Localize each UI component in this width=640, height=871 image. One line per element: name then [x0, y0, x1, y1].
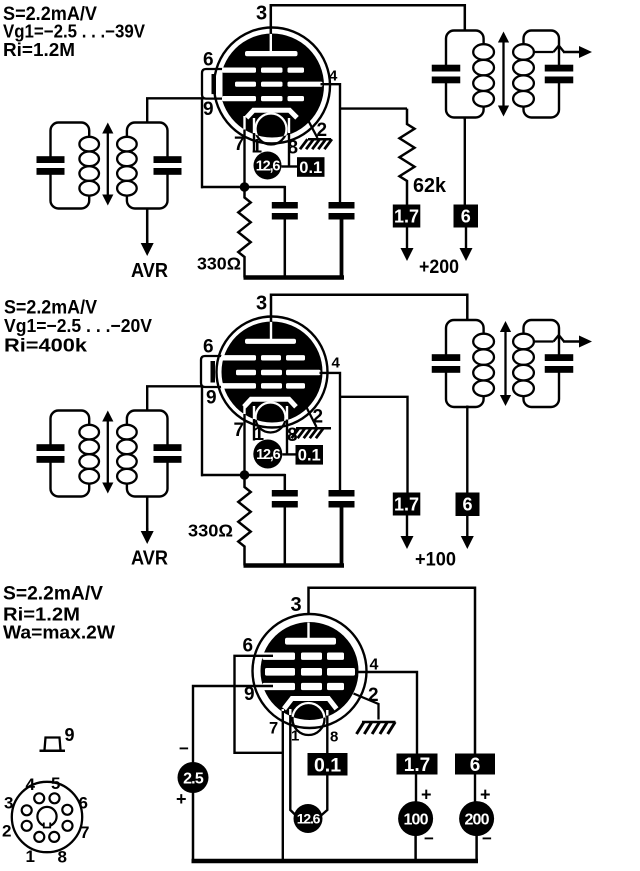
pin label 1 (V3)	[291, 728, 299, 745]
svg-text:6: 6	[462, 495, 472, 515]
svg-text:330Ω: 330Ω	[197, 254, 241, 274]
svg-text:9: 9	[65, 725, 75, 745]
heater voltage meter 12,6 V2	[253, 440, 282, 469]
circuit 1 parameter text S=2.2mA/V Vg1 Ri	[3, 4, 146, 60]
bottom bus circuit 1	[244, 275, 345, 280]
IF output transformer T4 secondary	[513, 320, 573, 407]
arrow from 6 meter (circuit 1)	[460, 228, 473, 262]
cathode bypass capacitor C1	[272, 186, 298, 278]
wire pin7 V1 cathode	[243, 116, 245, 188]
svg-text:12,6: 12,6	[256, 159, 281, 175]
heater current meter 0.1 V1	[282, 157, 325, 177]
svg-text:3: 3	[256, 3, 267, 25]
wire 2.5 meter to bus	[192, 793, 195, 862]
socket pin label 7	[80, 823, 89, 842]
pin label 2 (V1)	[317, 120, 328, 141]
coupling arrow T3	[102, 411, 113, 494]
svg-text:6: 6	[243, 636, 254, 657]
svg-text:1.7: 1.7	[404, 755, 430, 776]
IF output transformer T4 primary	[432, 320, 494, 407]
wire T1 secondary top to grid	[147, 98, 224, 122]
svg-text:6: 6	[203, 337, 214, 358]
pin label 6 (V2)	[203, 337, 214, 358]
label 62k (R2)	[413, 175, 447, 197]
top rail to output transformer T2	[271, 5, 465, 31]
socket center spigot	[37, 807, 56, 829]
svg-text:62k: 62k	[413, 175, 447, 197]
svg-text:AVR: AVR	[131, 260, 168, 282]
label minus (2.5 meter)	[179, 739, 189, 758]
socket pin label 3	[4, 794, 13, 813]
pin label 4 (V1)	[329, 68, 338, 85]
wire 1.7 meter to 100 meter	[397, 754, 438, 803]
socket pin label 4	[26, 775, 36, 794]
svg-text:9: 9	[203, 99, 214, 120]
svg-text:Vg1=−2.5 . . .−20V: Vg1=−2.5 . . .−20V	[4, 315, 153, 336]
screen bypass capacitor C4	[329, 490, 355, 566]
screen bypass capacitor C2	[329, 202, 355, 278]
label 330 ohm (R3)	[188, 521, 233, 541]
resistor R1 330 ohm	[238, 188, 250, 278]
top rail to output transformer T4	[271, 295, 467, 321]
wire pin3 V1 to top rail	[270, 4, 273, 34]
svg-text:3: 3	[4, 794, 13, 813]
svg-text:−: −	[482, 829, 492, 848]
svg-text:Wa=max.2W: Wa=max.2W	[3, 622, 116, 643]
label AVR (circuit 2)	[131, 548, 168, 570]
wire T3 secondary top to grid (circuit 2)	[147, 386, 224, 410]
svg-text:Ri=1.2M: Ri=1.2M	[3, 39, 75, 60]
wire pin1 V1 heater	[253, 118, 255, 153]
wire screen tap	[340, 107, 407, 109]
pin label 9 (V2)	[206, 388, 217, 409]
heater current meter 0.1 V2	[282, 445, 323, 465]
label +200	[419, 256, 459, 278]
IF output transformer T2 secondary	[513, 31, 573, 118]
svg-text:2: 2	[317, 120, 328, 141]
svg-text:2: 2	[2, 822, 11, 841]
screen current meter 1.7 (circuit 2)	[393, 493, 421, 516]
svg-text:+100: +100	[415, 549, 456, 571]
wire pin2 V2 to chassis	[303, 401, 317, 428]
socket pin hole 4	[34, 793, 44, 803]
pin label 4 (V2)	[332, 355, 341, 372]
socket pin hole 7	[63, 821, 73, 831]
top cap symbol (pin 9)	[40, 738, 66, 751]
pin label 8 (V2)	[287, 425, 298, 446]
svg-text:3: 3	[256, 293, 267, 315]
pin label 7 (V3)	[269, 720, 278, 738]
svg-text:7: 7	[234, 134, 245, 155]
top rail circuit 3	[309, 588, 476, 754]
svg-text:4: 4	[329, 68, 338, 85]
label plus (2.5 meter)	[176, 789, 187, 809]
bottom bus circuit 3	[192, 859, 479, 864]
AVR arrow (circuit 2)	[141, 528, 154, 544]
screen voltmeter 100	[398, 801, 433, 836]
wire pin7 V2 cathode	[243, 405, 245, 476]
IF input transformer T1 secondary coil and capacitor	[117, 123, 181, 209]
svg-text:1: 1	[291, 728, 299, 745]
arrow from 6 meter (circuit 2)	[461, 516, 474, 549]
svg-text:9: 9	[206, 388, 217, 409]
AVR arrow	[141, 240, 154, 256]
socket pin label 5	[51, 774, 60, 793]
chassis ground (V3 pin2)	[357, 722, 396, 734]
wire pin8 V2 heater	[286, 406, 288, 454]
pin label 9 (V1)	[203, 99, 214, 120]
svg-text:−: −	[179, 739, 189, 758]
pin label 1 (V1)	[252, 137, 263, 158]
heater current meter 0.1 V3	[308, 753, 348, 776]
wire screen tap (circuit 2)	[340, 397, 408, 493]
svg-text:+: +	[176, 789, 187, 809]
svg-text:1: 1	[26, 847, 35, 866]
pin label 7 (V1)	[234, 134, 245, 155]
wire T3 secondary bottom to AVR arrow (circuit 2)	[146, 497, 149, 532]
label minus (100 meter)	[424, 829, 434, 848]
socket pin hole 5	[50, 793, 60, 803]
chassis ground (V2 pin2)	[292, 428, 332, 438]
pin label 1 (V2)	[254, 424, 265, 445]
pin label 3 (V3)	[291, 594, 302, 616]
svg-text:0.1: 0.1	[298, 447, 321, 465]
resistor R2 62k	[400, 109, 415, 205]
tube V2 (pentode)	[201, 317, 328, 433]
svg-text:12.6: 12.6	[297, 811, 321, 827]
grid bias wire to 2.5 meter	[193, 686, 273, 763]
anode current meter 6 (circuit 3)	[455, 754, 495, 776]
coupling arrow T2	[498, 32, 509, 117]
label 330 ohm (R1)	[197, 254, 241, 274]
svg-text:0.1: 0.1	[314, 754, 341, 776]
svg-text:6: 6	[203, 50, 214, 71]
tube V1 (pentode)	[202, 28, 330, 145]
IF input transformer T3 primary coil and capacitor	[37, 411, 99, 497]
output line with hop and arrow (circuit 2)	[533, 335, 592, 347]
chassis ground (V1 pin2)	[300, 139, 332, 149]
svg-text:Ri=400k: Ri=400k	[4, 335, 88, 356]
socket pin hole 2	[22, 821, 32, 831]
arrow to +200 (screen)	[401, 228, 414, 262]
pin label 8 (V1)	[288, 138, 299, 159]
wire pin8 V3 heater lower	[321, 776, 327, 816]
socket pin hole 6	[62, 805, 72, 815]
pin label 3 (V2)	[256, 293, 267, 315]
svg-text:6: 6	[470, 755, 481, 776]
svg-text:AVR: AVR	[131, 548, 168, 570]
svg-text:6: 6	[461, 206, 471, 226]
label 9 (top cap)	[65, 725, 75, 745]
wire T2 primary bottom to 6 meter	[464, 118, 466, 121]
pin label 2 (V3)	[368, 685, 379, 706]
wire pin4 V1 to anode line	[321, 84, 341, 203]
pin label 7 (V2)	[234, 420, 245, 441]
svg-text:4: 4	[332, 355, 341, 372]
svg-text:S=2.2mA/V: S=2.2mA/V	[3, 584, 103, 605]
screen current meter 1.7 (circuit 1)	[393, 205, 421, 228]
svg-text:1.7: 1.7	[394, 494, 419, 514]
wire 100 meter to bus	[414, 836, 417, 861]
node K2 junction dot	[201, 386, 286, 480]
pin label 3 (V1)	[256, 3, 267, 25]
label plus (200 meter)	[480, 785, 491, 805]
socket pin label 6	[79, 794, 88, 813]
pin label 9 (V3)	[244, 684, 255, 705]
heater voltage meter 12,6 V1	[254, 152, 282, 180]
svg-text:200: 200	[464, 811, 489, 828]
label minus (200 meter)	[482, 829, 492, 848]
bottom bus circuit 2	[244, 563, 345, 568]
wire pin2 V1 to chassis	[304, 113, 318, 139]
cathode bypass capacitor C3	[272, 474, 298, 566]
svg-text:8: 8	[58, 848, 67, 867]
socket pin hole 3	[22, 805, 32, 815]
svg-text:−: −	[424, 829, 434, 848]
pin label 2 (V2)	[313, 407, 324, 428]
label plus (100 meter)	[421, 785, 432, 805]
svg-text:3: 3	[291, 594, 302, 616]
IF input transformer T3 secondary coil and capacitor	[117, 411, 181, 497]
resistor R3 330 ohm	[238, 476, 250, 566]
wire pin1 V2 heater	[253, 406, 255, 441]
wire pin8 V3 heater upper	[326, 710, 328, 754]
svg-text:330Ω: 330Ω	[188, 521, 233, 541]
label AVR	[131, 260, 168, 282]
output line with hop and arrow (circuit 1)	[533, 46, 592, 58]
grid bias voltmeter 2.5	[178, 762, 209, 793]
svg-text:2.5: 2.5	[183, 770, 204, 787]
svg-text:12,6: 12,6	[256, 447, 281, 463]
wire pin2 V3 to chassis (circuit 3)	[354, 694, 379, 720]
wire pin8 V1 heater	[288, 118, 290, 167]
wire 6 meter to 200 meter	[474, 775, 476, 803]
svg-text:+200: +200	[419, 256, 459, 278]
coupling arrow T4	[500, 321, 511, 406]
heater voltage meter 12.6 V3	[294, 804, 323, 833]
svg-text:4: 4	[26, 775, 36, 794]
anode current meter 6 (circuit 2)	[456, 406, 480, 517]
svg-text:0.1: 0.1	[299, 159, 322, 177]
wire pin3 V3 to top rail (circuit 3)	[307, 587, 310, 615]
wire pin4 V2 to anode line	[320, 373, 341, 491]
wire pin4 V3 to 1.7 meter	[356, 672, 417, 754]
socket pin label 8	[58, 848, 67, 867]
circuit 2 parameter text S Vg1 Ri	[4, 298, 153, 356]
svg-text:7: 7	[80, 823, 89, 842]
node K1 junction dot	[201, 98, 286, 192]
pin label 6 (V3)	[243, 636, 254, 657]
IF input transformer T1 primary coil and capacitor	[37, 123, 99, 209]
socket pin hole 8	[49, 832, 59, 842]
IF output transformer T2 primary	[432, 31, 494, 118]
wire pin1 V3 heater	[290, 709, 296, 816]
svg-text:8: 8	[330, 729, 338, 746]
svg-text:100: 100	[403, 811, 428, 828]
pin label 8 (V3)	[330, 729, 338, 746]
svg-text:+: +	[421, 785, 432, 805]
arrow to +100 (screen, circuit 2)	[401, 516, 414, 550]
anode current meter 6 (circuit 1)	[454, 118, 479, 228]
anode voltmeter 200	[459, 801, 494, 836]
tube V3 (pentode)	[253, 614, 367, 735]
pin label 6 (V1)	[203, 50, 214, 71]
circuit 3 parameter text S Ri Wa	[3, 584, 116, 643]
pin label 4 (V3)	[370, 657, 379, 674]
svg-text:5: 5	[51, 774, 60, 793]
socket pin hole 1	[34, 832, 44, 842]
wire pin6 V3 to cathode rail	[235, 656, 283, 753]
wire pin3 V2 to top rail	[270, 294, 273, 322]
socket pin label 1	[26, 847, 35, 866]
svg-text:+: +	[480, 785, 491, 805]
svg-text:1.7: 1.7	[394, 206, 419, 226]
svg-text:7: 7	[234, 420, 245, 441]
socket outline	[12, 782, 82, 852]
svg-text:6: 6	[79, 794, 88, 813]
wire T1 secondary bottom to AVR arrow	[146, 209, 149, 244]
wire 200 meter to bus	[475, 836, 478, 861]
svg-text:7: 7	[269, 720, 278, 738]
socket pin label 2	[2, 822, 11, 841]
wire pin7 V3 cathode to bus	[282, 709, 284, 861]
label +100	[415, 549, 456, 571]
coupling arrow T1	[102, 123, 113, 206]
